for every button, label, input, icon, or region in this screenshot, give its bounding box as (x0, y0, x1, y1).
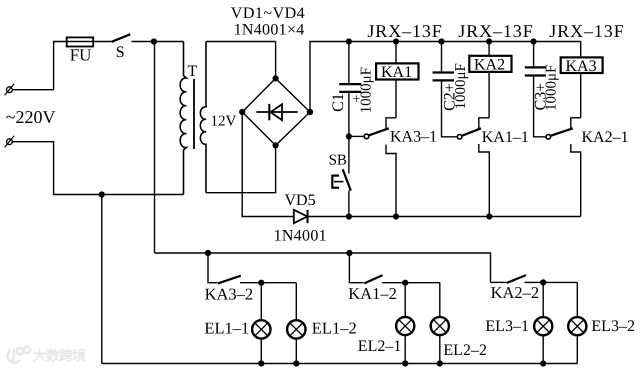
svg-text:KA1–2: KA1–2 (348, 284, 397, 303)
wire KA2 branch to DC- rail (479, 144, 490, 217)
lamp EL3-2 (568, 282, 586, 363)
node DC+ at KA1 (393, 38, 399, 44)
wire terminal N to primary bottom (12, 142, 183, 195)
bridge node top (273, 75, 279, 81)
contact KA3-1 (349, 128, 389, 138)
node DC+ at C1 (346, 38, 352, 44)
lamp EL2-2 (431, 283, 449, 364)
lamp EL1-1 (252, 283, 270, 364)
svg-text:~220V: ~220V (6, 107, 56, 127)
svg-text:JRX–13F: JRX–13F (367, 21, 442, 41)
wire fuse to switch (93, 41, 112, 43)
svg-text:S: S (116, 44, 125, 61)
svg-text:JRX–13F: JRX–13F (549, 21, 624, 41)
watermark logo (8, 347, 31, 363)
bridge node right (307, 109, 313, 115)
svg-text:1N4001×4: 1N4001×4 (234, 22, 305, 39)
node DC+ at KA2 (486, 38, 492, 44)
wire DC- from bridge left (242, 112, 294, 217)
svg-text:12V: 12V (211, 114, 237, 130)
wire neutral drop (101, 195, 103, 364)
svg-text:大数跨境: 大数跨境 (33, 348, 87, 365)
contact KA2-2 (491, 275, 578, 283)
svg-text:EL2–1: EL2–1 (358, 338, 402, 355)
svg-text:KA3–1: KA3–1 (390, 129, 437, 146)
svg-text:KA2: KA2 (474, 57, 505, 74)
wire KA1 branch to DC- rail (386, 145, 396, 217)
svg-text:EL1–1: EL1–1 (204, 318, 249, 337)
svg-text:KA1: KA1 (381, 64, 412, 81)
lamp EL1-2 (287, 283, 305, 364)
svg-text:KA2–1: KA2–1 (582, 129, 629, 146)
node return EL1-1 (258, 360, 264, 366)
svg-text:EL1–2: EL1–2 (312, 318, 357, 337)
relay coil KA1 (376, 42, 418, 129)
svg-text:EL2–2: EL2–2 (443, 342, 487, 359)
wire switch to node A (132, 41, 154, 43)
transformer T primary winding (180, 42, 186, 195)
node return EL2-2 (437, 360, 443, 366)
svg-text:C1: C1 (330, 93, 347, 112)
svg-text:1000μF: 1000μF (544, 65, 560, 111)
svg-text:FU: FU (70, 45, 92, 64)
node return EL3-1 (540, 360, 546, 366)
node neutral tap (99, 191, 105, 197)
node EL3-1 tap (540, 279, 546, 285)
node return EL1-2 (293, 360, 299, 366)
contact KA1-2 (349, 253, 439, 283)
contact KA3-2 (208, 253, 296, 283)
bridge node left (239, 109, 245, 115)
wire bridge bottom to secondary bottom (206, 145, 276, 192)
svg-text:KA3: KA3 (566, 58, 597, 75)
bridge inner diode symbol (256, 104, 297, 120)
node DC+ at C2 (438, 38, 444, 44)
contact KA1-1 (457, 128, 481, 139)
svg-text:EL3–2: EL3–2 (591, 318, 635, 335)
capacitor C1 (339, 42, 361, 137)
svg-text:1000μF: 1000μF (358, 67, 374, 113)
wire DC+ from bridge right (310, 42, 581, 113)
node DC- rail at KA1 branch (393, 213, 399, 219)
fuse FU (67, 37, 94, 46)
bridge rectifier VD1-VD4 diamond (242, 78, 310, 145)
terminal input L (top) (5, 84, 15, 95)
pushbutton SB (332, 136, 351, 216)
diode VD5 (294, 210, 308, 223)
wire terminal L to fuse (12, 42, 66, 90)
svg-text:KA1–1: KA1–1 (482, 129, 529, 146)
wire VD5 to DC- rail (308, 216, 581, 218)
node A (live tap) (151, 38, 157, 44)
wire KA3 branch to DC- rail (571, 144, 581, 217)
lamp EL2-1 (396, 283, 414, 364)
svg-text:VD5: VD5 (285, 192, 316, 209)
svg-text:KA3–2: KA3–2 (205, 284, 254, 303)
node DC- rail at SB (346, 213, 352, 219)
node C1 bottom (346, 133, 352, 139)
switch S blade (112, 34, 131, 42)
svg-text:KA2–2: KA2–2 (491, 283, 540, 302)
lamp EL3-1 (534, 282, 552, 363)
wire bridge top vertical (275, 42, 277, 79)
svg-text:SB: SB (329, 153, 347, 169)
node EL1-1 tap (258, 280, 264, 286)
relay coil KA2 (469, 42, 511, 129)
contact KA2-1 (546, 128, 573, 139)
svg-text:VD1~VD4: VD1~VD4 (231, 5, 305, 22)
node EL2-1 tap (402, 280, 408, 286)
capacitor C3 (525, 42, 546, 137)
svg-text:T: T (188, 63, 198, 80)
wire lamp feed rail (155, 253, 491, 282)
wire live drop (154, 42, 156, 254)
node return EL2-1 (402, 360, 408, 366)
node DC+ at C3 (531, 38, 537, 44)
transformer core (193, 79, 195, 149)
svg-text:JRX–13F: JRX–13F (458, 21, 533, 41)
node lamp rail G1 (205, 250, 211, 256)
node lamp rail G2 (346, 250, 352, 256)
terminal input N (bottom) (5, 136, 15, 147)
svg-text:1000μF: 1000μF (453, 63, 469, 109)
wire secondary top to bridge (206, 41, 276, 43)
svg-text:1N4001: 1N4001 (274, 228, 327, 245)
wire lamp return rail (102, 363, 578, 365)
transformer secondary winding (200, 42, 206, 193)
svg-text:EL3–1: EL3–1 (485, 318, 529, 335)
bridge node bottom (273, 142, 279, 148)
capacitor C2 (433, 42, 458, 137)
node DC- rail at KA2 branch (486, 213, 492, 219)
relay coil KA3 (561, 42, 603, 129)
wire node A to primary top (154, 41, 184, 43)
